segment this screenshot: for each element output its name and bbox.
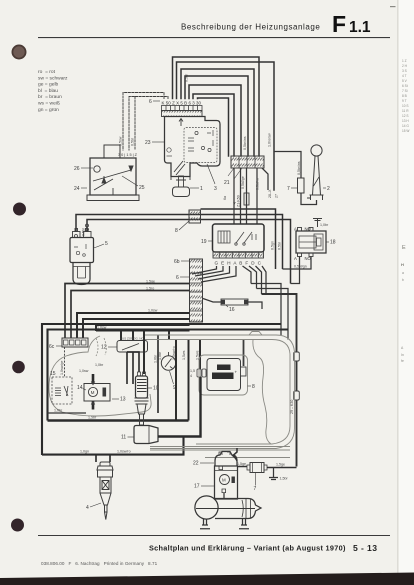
svg-text:29 – K30: 29 – K30: [290, 400, 294, 414]
svg-text:12 S: 12 S: [402, 114, 409, 118]
motor feed stubs: [92, 374, 95, 384]
hand lever 2 shaft: [313, 156, 321, 195]
ignition switch connector hatched strip: [162, 111, 203, 117]
svg-text:NO: NO: [305, 227, 312, 232]
dashed branch to switch 24 pin Z: [134, 97, 136, 151]
air valve 11 body: [134, 426, 158, 444]
car inner contour: [253, 340, 271, 444]
K30 inline connector b: [294, 391, 300, 400]
svg-text:4 T: 4 T: [402, 74, 407, 78]
wire 22 to 7: [232, 455, 247, 467]
run 4 left: [83, 319, 190, 338]
svg-text:M: M: [91, 390, 95, 395]
svg-text:27: 27: [275, 194, 279, 198]
glow plug relay 7 bottom: [250, 463, 264, 473]
svg-text:1,0sw: 1,0sw: [79, 369, 89, 373]
svg-text:26: 26: [74, 166, 80, 172]
svg-text:sw = schwarz: sw = schwarz: [38, 75, 68, 81]
wire strip21 down d: [256, 168, 258, 224]
relay19 wire F: [249, 266, 257, 289]
wire resistor to lever base: [301, 193, 317, 205]
wire nest from ignition switch pin 3: [193, 94, 234, 156]
svg-text:7: 7: [287, 186, 290, 192]
box 24 base plate: [87, 195, 139, 201]
svg-text:0,5bl: 0,5bl: [278, 242, 282, 250]
glow plug 4: [97, 462, 113, 520]
heater horizontal cylinder: [215, 499, 261, 519]
svg-text:23: 23: [145, 140, 151, 146]
svg-text:24: 24: [74, 186, 80, 192]
connector 6 tall strip: [190, 259, 203, 322]
adjacent page tiny text column: [402, 59, 409, 133]
heater unit 17 body: [215, 466, 238, 499]
svg-text:2 H: 2 H: [402, 64, 408, 68]
svg-text:19: 19: [201, 239, 207, 245]
svg-text:In: In: [401, 353, 404, 357]
thick wire from 11: [158, 377, 201, 437]
svg-text:1,0br: 1,0br: [320, 223, 329, 227]
big loop box inner: [48, 330, 289, 421]
svg-text:0,5bl/ge: 0,5bl/ge: [241, 176, 245, 189]
ignition/steering lock body 23: [165, 117, 221, 177]
main bus wire lower: [87, 220, 291, 284]
svg-text:14: 14: [77, 385, 83, 391]
relay 18 box: [296, 231, 326, 253]
valve 10 wires up: [127, 352, 139, 372]
svg-text:14 G: 14 G: [402, 124, 409, 128]
svg-text:13: 13: [120, 397, 126, 403]
svg-text:0,5bl: 0,5bl: [131, 138, 135, 146]
run 1,5ge left: [65, 284, 190, 339]
svg-text:6: 6: [176, 275, 179, 281]
ignition coil 5 body: [70, 238, 94, 263]
svg-text:17: 17: [194, 484, 200, 490]
relay19 wire A: [201, 266, 236, 282]
svg-text:25: 25: [139, 185, 145, 191]
svg-text:9 T: 9 T: [402, 99, 407, 103]
svg-text:7 Si: 7 Si: [402, 89, 408, 93]
battery 8 frame: [199, 355, 248, 395]
colour legend: [38, 69, 68, 113]
blower motor 14 box: [84, 384, 110, 402]
car bottom double line: [150, 447, 290, 458]
coil 5 lower can: [73, 263, 90, 285]
relay19 wire H: [198, 266, 230, 279]
wire 17 bottom to left: [223, 493, 225, 499]
svg-text:1: 1: [200, 186, 203, 192]
svg-text:038.806.00 F 6. Nachtrag: 038.806.00 F 6. Nachtrag Printed in Germ…: [41, 561, 158, 566]
run D right: [262, 294, 297, 467]
svg-text:0,5br/ws: 0,5br/ws: [243, 136, 247, 150]
svg-text:K 50 Z X 5 B 6 3 30: K 50 Z X 5 B 6 3 30: [162, 101, 202, 106]
svg-text:1,0sw/ge: 1,0sw/ge: [60, 361, 64, 375]
heater verticals from run: [120, 331, 122, 342]
relay 19 internals: [218, 231, 256, 245]
relay19 wire C: [262, 266, 281, 294]
wire from pin 30: [198, 98, 229, 156]
main bus wire upper: [76, 215, 283, 270]
svg-text:b: b: [402, 278, 404, 282]
battery 8 box: [207, 359, 241, 391]
svg-text:6 St: 6 St: [402, 84, 408, 88]
relay 19 terminal strip: [213, 252, 264, 258]
strip 21 leader lines: [228, 168, 242, 179]
svg-text:0,5gr: 0,5gr: [185, 73, 189, 82]
connector pair on battery feed: [197, 369, 201, 377]
svg-text:10 S: 10 S: [402, 104, 409, 108]
dashed wire 1,0sw/ge: [64, 347, 66, 377]
svg-text:2: 2: [327, 186, 330, 192]
wire nest from ignition switch pin 5: [181, 69, 254, 156]
svg-text:1,0ro/sw: 1,0ro/sw: [268, 133, 272, 147]
svg-text:11 R: 11 R: [402, 109, 409, 113]
run 1,0sw left: [77, 313, 190, 338]
svg-text:Schaltplan und Erklärung – Var: Schaltplan und Erklärung – Variant (ab A…: [149, 544, 346, 553]
punch hole 1: [12, 45, 25, 58]
box 15 resistor marks: [55, 386, 68, 396]
wire strip21 to relay below left: [233, 168, 235, 224]
relay 19 box: [213, 224, 265, 252]
svg-text:1,5ge: 1,5ge: [276, 463, 285, 467]
svg-text:br = braun: br = braun: [38, 94, 62, 100]
relay 18 bottom wires: [291, 257, 300, 284]
ground branch 1,5br: [269, 468, 278, 480]
dashed wire pin K to switch 24: [123, 93, 164, 151]
svg-text:1,5sw/ro: 1,5sw/ro: [172, 346, 176, 360]
svg-text:6c: 6c: [49, 344, 55, 350]
svg-text:22: 22: [193, 461, 199, 467]
relay19 wire D: [256, 266, 262, 294]
page edge dash: [390, 6, 396, 7]
svg-text:28–X: 28–X: [268, 189, 272, 198]
svg-text:21: 21: [224, 180, 230, 186]
svg-text:1,5ge: 1,5ge: [237, 462, 246, 466]
ignition lock cylinder and lever: [171, 161, 190, 180]
svg-text:8: 8: [175, 228, 178, 234]
svg-text:30|15|Z: 30|15|Z: [118, 153, 138, 157]
wire from switch12 down: [126, 352, 128, 384]
heater legs: [200, 519, 249, 529]
valve 10 lower cone: [137, 404, 146, 414]
run 1,5ro left: [71, 291, 190, 339]
heater motor M: [220, 475, 230, 485]
svg-text:1,5ge: 1,5ge: [146, 280, 155, 284]
header rule: [38, 37, 390, 38]
motor dark terminal: [103, 388, 107, 397]
svg-text:bl = blau: bl = blau: [38, 88, 58, 94]
svg-text:+: +: [235, 370, 238, 375]
svg-text:1,5ws: 1,5ws: [182, 350, 186, 360]
svg-text:1,0sw/ro: 1,0sw/ro: [117, 450, 131, 454]
svg-text:A: A: [294, 256, 297, 261]
box 24 body: [90, 158, 136, 195]
battery right terminal connector: [241, 367, 247, 376]
wire nest from ignition switch pin 6: [189, 85, 241, 156]
glow plug sensor 4 wires: [96, 455, 110, 463]
svg-text:1,5: 1,5: [190, 369, 195, 373]
key shaft in lock: [176, 176, 186, 187]
ignition feed arrow: [179, 119, 183, 127]
svg-text:0,5bl/ro: 0,5bl/ro: [256, 178, 260, 190]
wire 1,0br lower left: [48, 412, 87, 414]
wire nest from ignition switch pin B: [185, 76, 248, 156]
svg-text:1,0br: 1,0br: [158, 351, 162, 360]
verticals to valve 10 and battery 8: [175, 340, 177, 421]
box 24 interior contacts: [93, 166, 133, 195]
svg-text:ro = rot: ro = rot: [38, 69, 56, 75]
punch hole 2: [13, 203, 26, 216]
car body top lines: [145, 335, 295, 449]
wire strip21 down c: [246, 168, 248, 224]
box bottom wire: [42, 437, 184, 455]
battery 8 plates: [217, 365, 231, 371]
resistor 7 right: [298, 178, 305, 193]
svg-text:Beschreibung der Heizungsanlag: Beschreibung der Heizungsanlage: [181, 23, 320, 32]
svg-text:4: 4: [86, 505, 89, 511]
big loop box outer: [42, 324, 281, 455]
svg-text:M: M: [222, 478, 226, 483]
svg-text:13 H: 13 H: [402, 119, 409, 123]
svg-text:6a: 6a: [223, 196, 227, 200]
svg-text:1,5ro: 1,5ro: [146, 287, 154, 291]
svg-text:gn = grün: gn = grün: [38, 107, 59, 113]
relay19 wire E: [195, 266, 223, 276]
svg-text:AUS ZÜNDG. NC: AUS ZÜNDG. NC: [120, 337, 145, 341]
svg-text:E: E: [402, 245, 406, 251]
svg-text:7: 7: [254, 486, 257, 492]
ignition switch connector pin row: [162, 106, 203, 111]
wire nest from ignition switch pin Z: [173, 57, 260, 156]
page gap line: [397, 0, 398, 585]
wire to hand lever circuit: [274, 152, 301, 179]
connector 6c: [62, 338, 88, 347]
car body top notch: [249, 332, 262, 336]
svg-text:8 B: 8 B: [402, 94, 407, 98]
heater terminals: [219, 466, 223, 470]
motor M circle: [88, 387, 97, 396]
svg-text:10: 10: [153, 386, 159, 392]
svg-text:5 - 13: 5 - 13: [353, 543, 377, 553]
run B right: [251, 284, 281, 336]
heater unit 22 dome: [215, 452, 237, 467]
svg-text:16: 16: [229, 307, 235, 313]
wire nest from ignition switch pin X: [177, 62, 275, 190]
key bow 1: [173, 187, 190, 197]
svg-text:G E H A B F D C: G E H A B F D C: [215, 261, 262, 266]
punch hole 3: [12, 361, 25, 374]
run 1,0sw heater: [96, 330, 190, 332]
svg-text:1.1: 1.1: [349, 19, 371, 36]
svg-text:0,5bl/gn: 0,5bl/gn: [294, 265, 307, 269]
relay 18 terminal tabs: [298, 228, 314, 257]
svg-text:F: F: [332, 11, 346, 37]
bottom dark band: [0, 573, 414, 585]
svg-text:H: H: [401, 262, 404, 267]
wire 7 to main: [267, 467, 297, 469]
inline fuse: [244, 193, 249, 205]
svg-text:1,5br: 1,5br: [280, 477, 289, 481]
wire stub 28-X: [262, 168, 268, 190]
svg-text:8: 8: [252, 384, 255, 390]
fuel valve 10 top terminals: [138, 372, 146, 376]
svg-text:0,5gn: 0,5gn: [271, 241, 275, 250]
K30 inline connector a: [294, 352, 300, 361]
relay19 wire B: [243, 266, 252, 284]
svg-text:6: 6: [149, 99, 152, 105]
svg-text:11: 11: [121, 435, 126, 441]
footer rule: [38, 535, 390, 536]
svg-text:12: 12: [101, 345, 107, 351]
fuel valve 10 body: [136, 376, 148, 398]
inner contact details: [167, 130, 214, 156]
svg-text:1,0br: 1,0br: [54, 409, 63, 413]
svg-text:3: 3: [214, 186, 217, 192]
svg-text:3 S: 3 S: [402, 69, 407, 73]
thick run 1,5br bottom: [48, 419, 189, 421]
inline connectors on coil wire: [86, 224, 89, 227]
svg-text:15: 15: [50, 371, 56, 377]
punch hole 4: [11, 519, 24, 532]
svg-text:ws = weiß: ws = weiß: [38, 101, 60, 107]
ignition coil 5 terminals: [73, 229, 92, 238]
svg-text:18: 18: [330, 240, 336, 246]
dashed box 15: [52, 377, 72, 404]
hand lever 2 knob: [311, 145, 322, 156]
run F right: [257, 289, 289, 340]
dashboard outline: [49, 336, 151, 416]
hand lever 2 base: [307, 195, 324, 200]
svg-text:Z1·K50: Z1·K50: [237, 195, 241, 207]
terminal strip 21: [231, 156, 264, 168]
gauge 9: [161, 356, 175, 370]
svg-text:ge = gelb: ge = gelb: [38, 82, 59, 88]
ground above relay 18: [313, 219, 322, 228]
svg-text:a: a: [402, 271, 404, 275]
connector 8 on bus: [189, 210, 201, 223]
svg-text:1,0br: 1,0br: [154, 354, 158, 363]
valve 10 rings: [135, 398, 149, 404]
svg-text:1,0br: 1,0br: [95, 363, 104, 367]
svg-text:1,0sw: 1,0sw: [148, 309, 158, 313]
fuse 7 wire below strip21: [240, 168, 242, 224]
dashed wire pin 50 to switch 24: [129, 97, 168, 151]
relay 18 internals: [299, 234, 323, 250]
heater sphere tank: [195, 496, 218, 519]
svg-text:A: A: [294, 227, 297, 232]
svg-text:1 Z: 1 Z: [402, 59, 407, 63]
ignition switch inner dashed contact box: [184, 128, 217, 163]
svg-text:6b: 6b: [174, 259, 180, 265]
svg-text:1,0gn: 1,0gn: [80, 450, 89, 454]
run 5 left: [96, 325, 190, 331]
svg-text:fe: fe: [401, 359, 404, 363]
svg-text:15 W: 15 W: [402, 129, 409, 133]
adjacent page sliver right: [399, 0, 414, 585]
bus branch wire: [201, 209, 276, 269]
fuse 16: [203, 299, 262, 310]
svg-text:4: 4: [190, 374, 192, 378]
svg-text:5: 5: [105, 241, 108, 247]
relay19 wire G: [192, 266, 217, 274]
relay/flasher box 24 small top box: [104, 145, 120, 158]
svg-text:0,5br/ws: 0,5br/ws: [297, 161, 301, 175]
heater switch 12: [117, 341, 148, 353]
coil 5 inner marks: [74, 244, 86, 256]
